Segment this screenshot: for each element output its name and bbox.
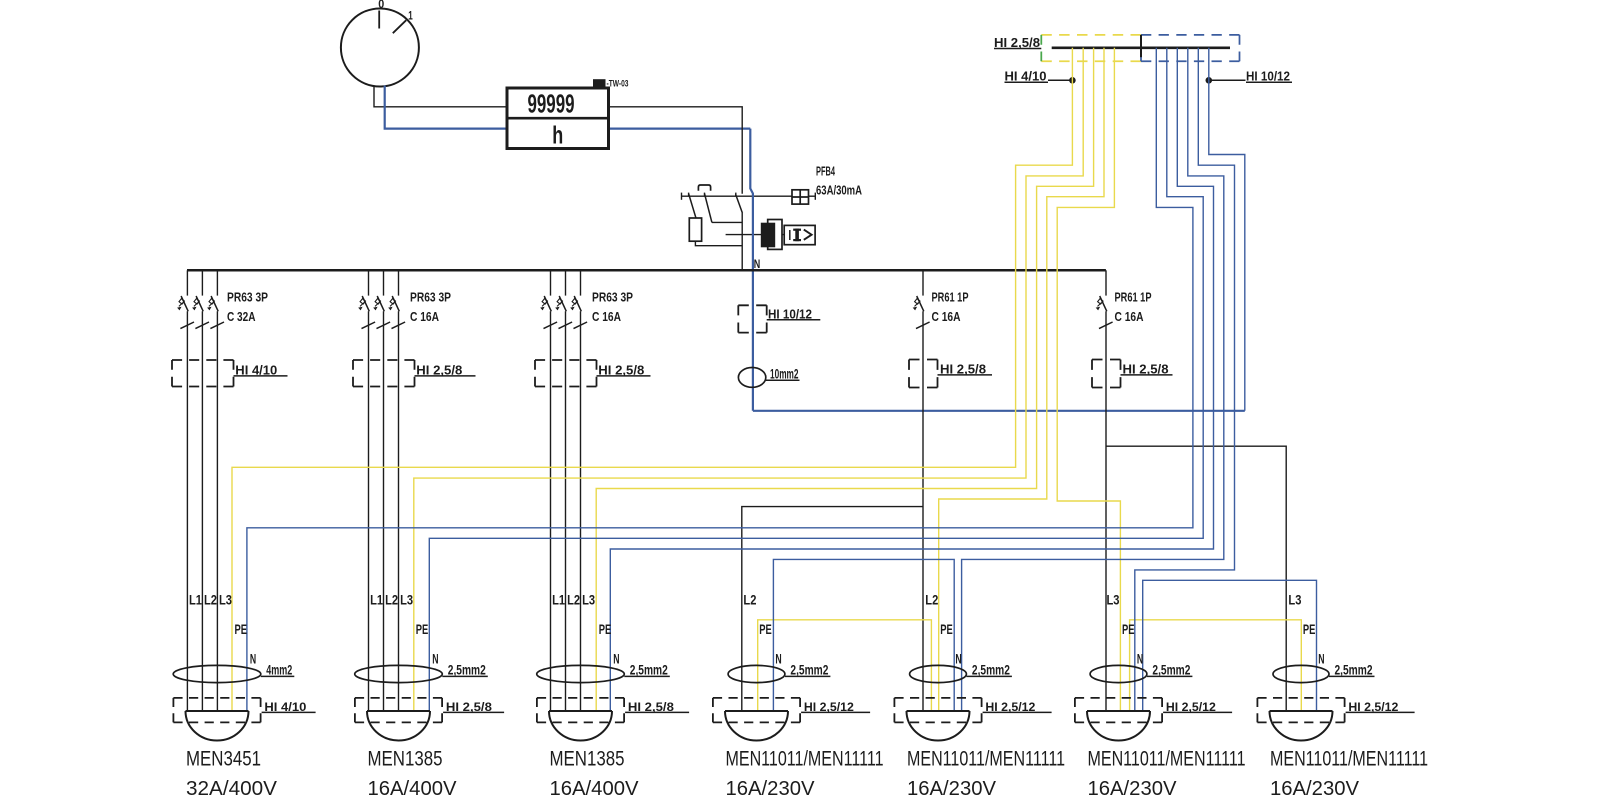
svg-text:16A/230V: 16A/230V (1088, 778, 1177, 800)
svg-text:PE: PE (1303, 621, 1316, 637)
cable size label 2,5mm2 (785, 662, 831, 678)
socket symbol (367, 711, 430, 741)
label HI 10/12 with leader dot on N wire (1206, 70, 1293, 84)
socket outlet X4 MEN11011/MEN11111 16A/230V (728, 665, 785, 682)
svg-text:MEN1385: MEN1385 (368, 746, 443, 770)
svg-text:MEN1385: MEN1385 (550, 746, 625, 770)
cable size label 2,5mm2 (442, 662, 488, 678)
svg-text:PE: PE (940, 621, 953, 637)
svg-text:L3: L3 (582, 592, 595, 608)
wire RCD test blade b to L (712, 221, 742, 223)
wire L3 branch F5 to outlet X7 (1106, 446, 1286, 711)
svg-text:N: N (754, 257, 761, 271)
N wire outlet X5 (blue) (962, 48, 1224, 711)
svg-text:PR61 1P: PR61 1P (1115, 290, 1152, 305)
PE wire outlet X5 (yellow) (939, 48, 1104, 711)
svg-text:PR63 3P: PR63 3P (410, 290, 451, 305)
socket outlet X2 MEN1385 16A/400V (355, 665, 443, 682)
socket outlet X5 MEN11011/MEN11111 16A/230V (910, 665, 967, 682)
svg-text:PR61 1P: PR61 1P (932, 290, 969, 305)
circuit breaker F2 PR63 3P C 16A (358, 270, 405, 711)
socket symbol (1087, 711, 1150, 741)
RCD test circuit line (682, 193, 816, 200)
svg-text:PR63 3P: PR63 3P (227, 290, 268, 305)
wire RCD L lower (741, 213, 743, 270)
svg-text:PE: PE (416, 621, 429, 637)
circuit breaker F1 PR63 3P C 32A (177, 270, 224, 711)
wire L2 branch F4 to outlet X4 (742, 507, 923, 711)
svg-text:L2: L2 (743, 592, 756, 608)
circuit breaker F4 PR61 1P C 16A (913, 270, 930, 711)
svg-text:L1: L1 (370, 592, 383, 608)
busbar divider tick (1140, 35, 1142, 57)
svg-text:C 32A: C 32A (227, 309, 256, 324)
svg-text:2,5mm2: 2,5mm2 (448, 662, 486, 678)
RCD trip relay I> box (784, 225, 815, 244)
cable size label 2,5mm2 (966, 662, 1012, 678)
cable marker ellipse 10mm2 (738, 365, 799, 387)
RCD main contact blade L (736, 194, 743, 213)
svg-text:16A/230V: 16A/230V (907, 778, 996, 800)
N wire outlet X2 (blue) (429, 48, 1203, 711)
svg-text:PE: PE (599, 621, 612, 637)
cable size label 2,5mm2 (1329, 662, 1375, 678)
svg-text:N: N (250, 650, 256, 666)
svg-text:C 16A: C 16A (592, 309, 621, 324)
wire N switch to hour meter (blue) (385, 86, 751, 129)
N riser wire busbar to main N (blue) (1209, 48, 1245, 411)
cable size label 2,5mm2 (624, 662, 670, 678)
svg-text:2,5mm2: 2,5mm2 (1335, 662, 1373, 678)
svg-text:MEN11011/MEN11111: MEN11011/MEN11111 (1088, 746, 1246, 770)
svg-text:16A/400V: 16A/400V (550, 778, 639, 800)
RCD current transformer toroid (761, 220, 782, 250)
conduit marker HI 2,5/8 at F2 (353, 360, 476, 387)
svg-text:MEN3451: MEN3451 (186, 746, 261, 770)
conduit marker HI 10/12 on main riser (738, 305, 820, 332)
svg-text:L1: L1 (189, 592, 202, 608)
svg-text:PR63 3P: PR63 3P (592, 290, 633, 305)
RCD mechanical linkage (726, 234, 785, 236)
conduit marker HI 4/10 at outlet (173, 698, 315, 723)
svg-text:PFB4: PFB4 (816, 164, 835, 179)
wire L hour meter to RCD (609, 107, 743, 194)
N wire outlet X6 (blue) (1135, 48, 1235, 711)
PE busbar dashed box (yellow/green) (1041, 35, 1141, 61)
svg-text:99999: 99999 (528, 89, 575, 119)
svg-text:63A/30mA: 63A/30mA (816, 182, 862, 197)
conduit marker HI 2,5/12 at outlet (1075, 698, 1232, 723)
cable size label 2,5mm2 (1147, 662, 1193, 678)
socket symbol (186, 711, 249, 741)
PE chain wire outlet X6 to X7 (yellow) (1130, 620, 1302, 711)
conduit marker HI 2,5/8 at outlet (537, 698, 689, 723)
conduit marker HI 2,5/8 at F4 (909, 360, 992, 388)
conduit marker HI 4/10 at F1 (172, 360, 288, 387)
svg-text:10mm2: 10mm2 (770, 365, 799, 381)
main N distribution wire (blue 10mm2) (753, 410, 1245, 412)
svg-text:2,5mm2: 2,5mm2 (630, 662, 668, 678)
svg-text:L2: L2 (925, 592, 938, 608)
cable size label 4mm2 (261, 662, 295, 678)
PE wire outlet X6 (yellow) (1057, 48, 1120, 711)
RCD test contact blade b (705, 194, 712, 223)
svg-text:2,5mm2: 2,5mm2 (972, 662, 1010, 678)
hour counter P1 99999 h (507, 88, 609, 150)
wire L switch to hour meter (374, 86, 507, 107)
PE chain wire outlet X5 to X4 (yellow) (758, 620, 932, 711)
conduit marker HI 2,5/12 at outlet (1257, 698, 1414, 723)
svg-text:16A/230V: 16A/230V (726, 778, 815, 800)
PE wire outlet X3 (yellow) (596, 48, 1093, 711)
svg-text:32A/400V: 32A/400V (186, 778, 277, 800)
wire RCD test resistor to L (695, 241, 742, 246)
svg-text:L2: L2 (385, 592, 398, 608)
RCD test resistor (689, 218, 701, 241)
main switch S0 0/1 rotary (341, 9, 419, 87)
svg-text:1: 1 (408, 9, 413, 23)
svg-text:16A/230V: 16A/230V (1270, 778, 1359, 800)
type label above hour meter (593, 79, 629, 89)
svg-text:C 16A: C 16A (1115, 309, 1144, 324)
N busbar dashed box (blue) (1141, 35, 1240, 61)
socket outlet X3 MEN1385 16A/400V (537, 665, 625, 682)
label HI 2,5/8 (PE busbar) (994, 36, 1041, 50)
svg-text:PE: PE (235, 621, 248, 637)
conduit marker HI 2,5/12 at outlet (894, 698, 1051, 723)
svg-text:PE: PE (759, 621, 772, 637)
N chain wire outlet X5 to X4 (blue) (773, 559, 954, 711)
svg-text:16A/400V: 16A/400V (368, 778, 457, 800)
RCD test contact blade a (689, 194, 696, 218)
svg-text:N: N (1318, 650, 1324, 666)
busbar conductor (1052, 46, 1230, 49)
svg-text:L2: L2 (204, 592, 217, 608)
svg-text:N: N (1137, 650, 1143, 666)
svg-text:C 16A: C 16A (410, 309, 439, 324)
svg-text:PE: PE (1122, 621, 1135, 637)
socket symbol (907, 711, 970, 741)
svg-text:MEN11011/MEN11111: MEN11011/MEN11111 (726, 746, 884, 770)
socket outlet X7 MEN11011/MEN11111 16A/230V (1273, 665, 1329, 682)
circuit breaker F3 PR63 3P C 16A (540, 270, 587, 711)
svg-text:L2: L2 (567, 592, 580, 608)
main L distribution bus (187, 269, 1106, 272)
RCD mechanical latch bracket (698, 185, 710, 191)
socket symbol (1270, 711, 1333, 741)
PE wire outlet X2 (yellow) (414, 48, 1083, 711)
RCD test button (792, 190, 809, 204)
N wire outlet X1 (blue) (247, 48, 1193, 711)
socket symbol (549, 711, 612, 741)
conduit marker HI 2,5/12 at outlet (713, 698, 870, 723)
svg-text:2,5mm2: 2,5mm2 (790, 662, 828, 678)
wire N through RCD (blue) (750, 129, 753, 411)
conduit marker HI 2,5/8 at F5 (1092, 360, 1173, 388)
svg-text:N: N (775, 650, 781, 666)
conduit marker HI 2,5/8 at outlet (355, 698, 504, 723)
socket outlet X6 MEN11011/MEN11111 16A/230V (1090, 665, 1147, 682)
svg-text:N: N (432, 650, 438, 666)
svg-text:L3: L3 (1107, 592, 1120, 608)
svg-text:C 16A: C 16A (932, 309, 961, 324)
svg-text:L3: L3 (1288, 592, 1301, 608)
circuit breaker F5 PR61 1P C 16A (1096, 270, 1113, 711)
svg-text:L1: L1 (552, 592, 565, 608)
conduit marker HI 2,5/8 at F3 (535, 360, 651, 387)
svg-text:0: 0 (378, 0, 384, 11)
socket symbol (725, 711, 788, 741)
svg-text:L3: L3 (219, 592, 232, 608)
N wire outlet X3 (blue) (610, 48, 1213, 711)
svg-text:HI 10/12: HI 10/12 (1246, 70, 1290, 84)
N chain wire outlet X6 to X7 (blue) (1143, 580, 1317, 711)
PE wire outlet X1 (yellow) (232, 48, 1072, 711)
svg-text:2,5mm2: 2,5mm2 (1152, 662, 1190, 678)
svg-text:N: N (955, 650, 961, 666)
svg-text:MEN11011/MEN11111: MEN11011/MEN11111 (1270, 746, 1428, 770)
svg-text:HI 4/10: HI 4/10 (1005, 70, 1047, 84)
svg-text:-TW-03: -TW-03 (607, 79, 629, 89)
svg-text:4mm2: 4mm2 (266, 662, 292, 678)
svg-text:MEN11011/MEN11111: MEN11011/MEN11111 (907, 746, 1065, 770)
svg-text:N: N (613, 650, 619, 666)
svg-text:L3: L3 (400, 592, 413, 608)
label HI 4/10 with leader dot on PE wire (1005, 70, 1076, 84)
svg-text:h: h (552, 122, 563, 150)
socket outlet X1 MEN3451 32A/400V (173, 665, 261, 682)
